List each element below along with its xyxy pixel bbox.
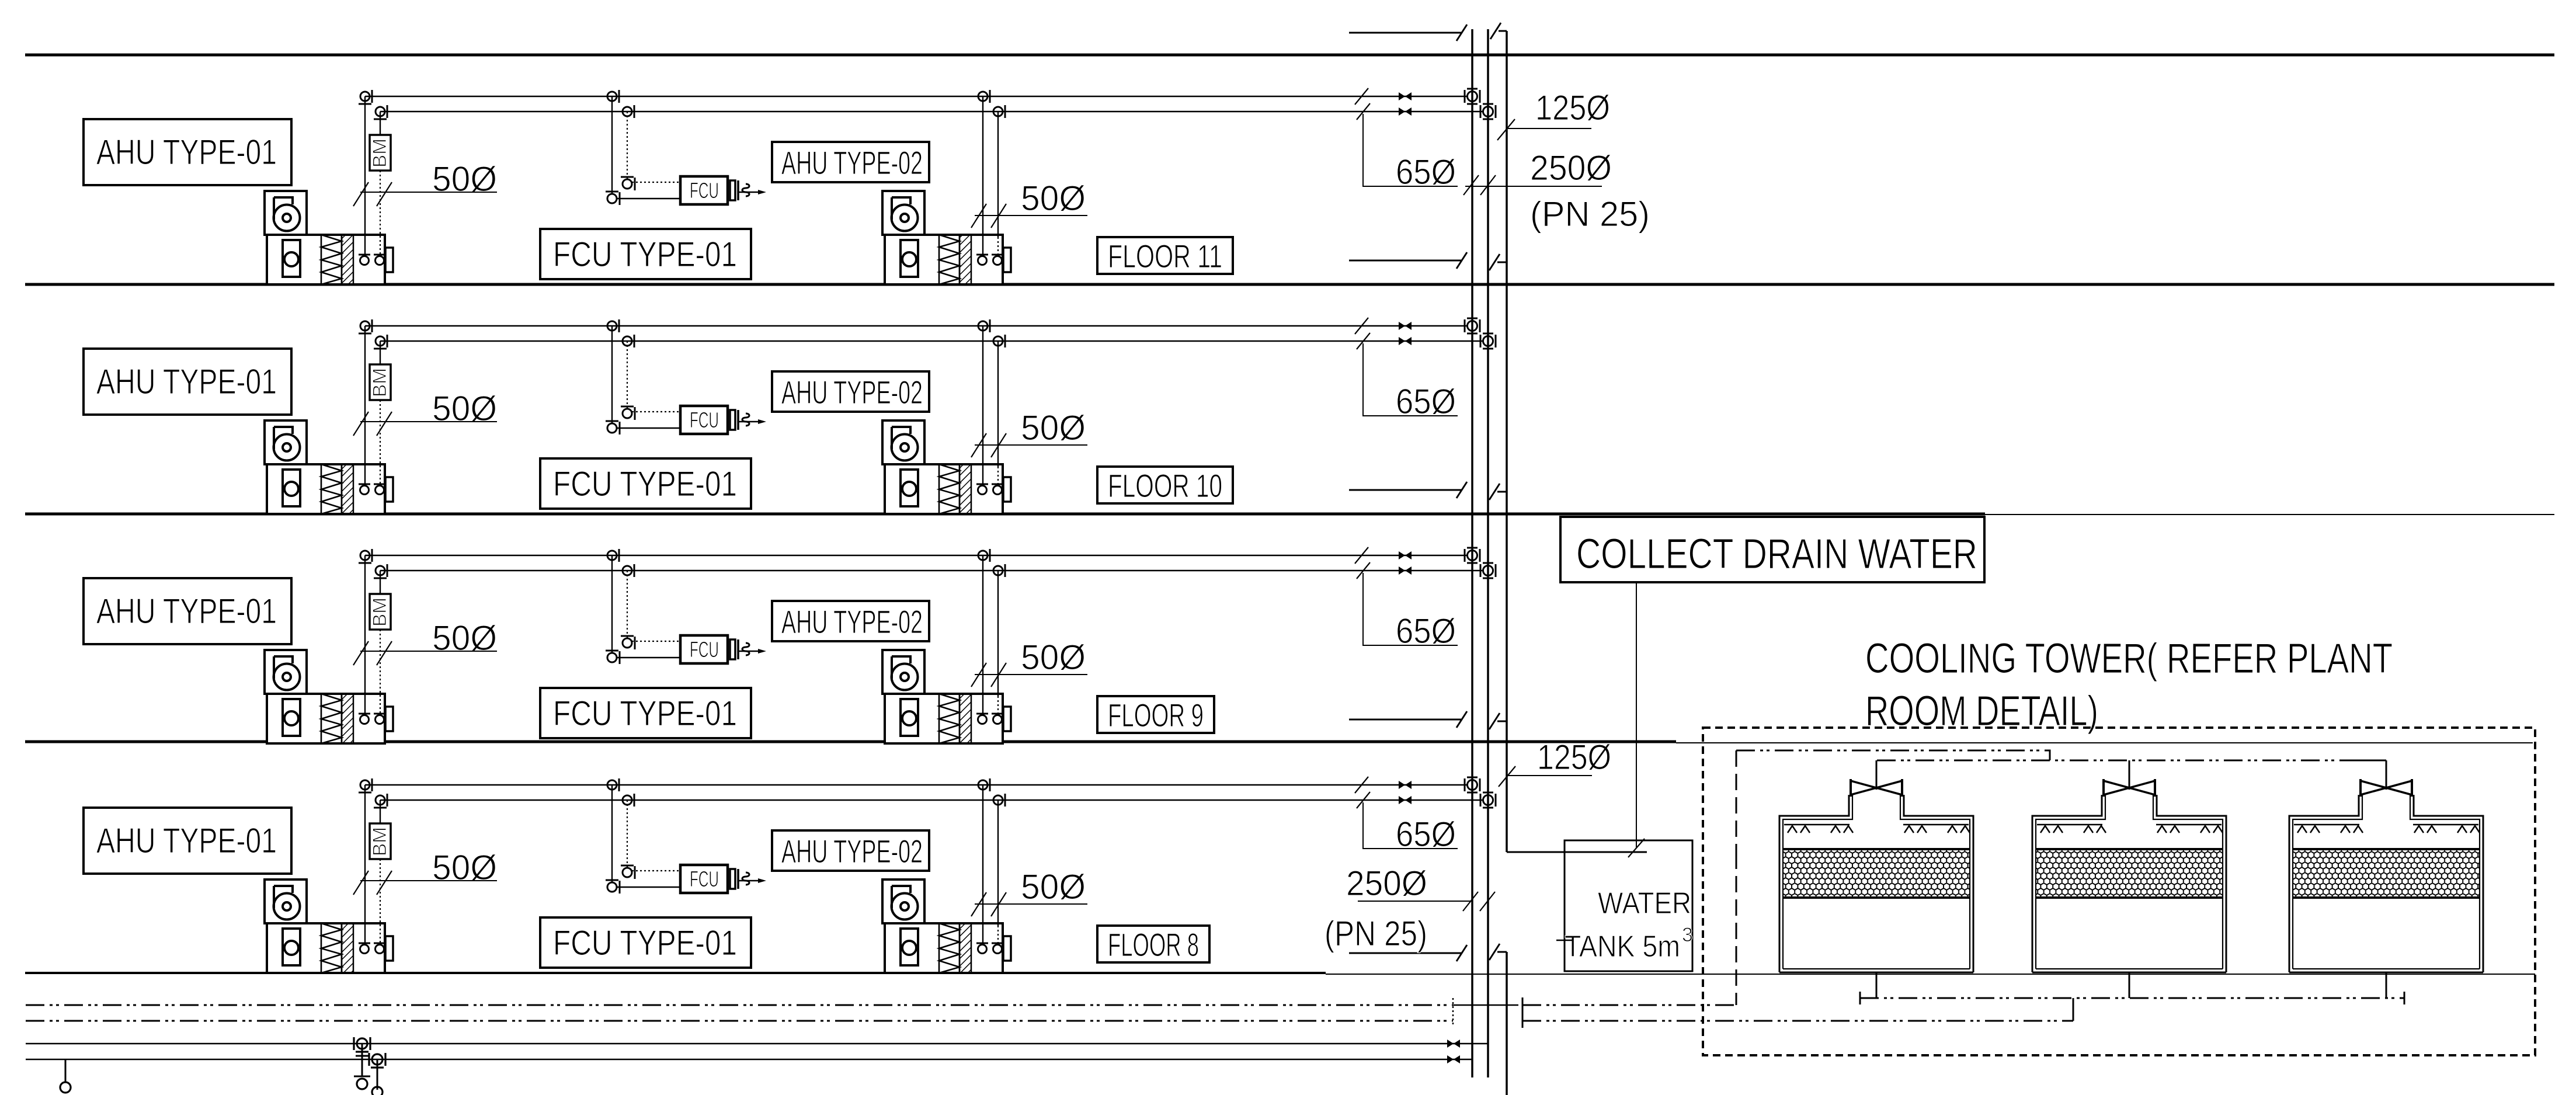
svg-text:AHU TYPE-02: AHU TYPE-02	[781, 374, 923, 411]
svg-text:FCU: FCU	[690, 179, 719, 203]
CWS pipe floor 10	[365, 325, 1467, 326]
AHU-01 return drop upper	[380, 341, 381, 364]
FCU air arrow	[738, 413, 766, 426]
AHU-01 unit: coil hatch	[342, 464, 353, 514]
svg-text:50Ø: 50Ø	[1021, 867, 1086, 906]
drain line 2 dash-dot right	[1522, 1020, 2073, 1022]
svg-text:FLOOR 9: FLOOR 9	[1108, 697, 1204, 734]
AHU-01 return drop lower dotted	[380, 630, 381, 715]
elbow union on CWR at AHU-01	[374, 564, 387, 578]
isolating valve on CWS	[1399, 92, 1412, 100]
AHU-02 return drop	[997, 112, 999, 237]
svg-text:250Ø: 250Ø	[1530, 148, 1612, 187]
AHU-02 unit: side tab	[1003, 477, 1011, 502]
elbow union on CWR at AHU-01	[374, 794, 387, 808]
svg-text:WATER: WATER	[1598, 887, 1691, 920]
riser tee connection CWS-R1	[1465, 89, 1480, 104]
AHU-02 unit: side tab	[1003, 936, 1011, 961]
floor slab line (floor 8 / plant room)	[25, 972, 1326, 974]
FCU supply elbow union	[606, 192, 620, 205]
svg-text:BM: BM	[369, 827, 390, 856]
FCU box	[680, 406, 728, 434]
pipe continuation break line y=446	[1349, 252, 1467, 269]
AHU-01 return drop lower dotted	[380, 171, 381, 256]
FCU connecting pipe supply	[617, 657, 680, 658]
svg-text:65Ø: 65Ø	[1396, 815, 1456, 854]
condenser header dash-dot B	[1877, 760, 2358, 762]
FCU branch return drop dotted	[627, 341, 628, 409]
50dia label at AHU-01	[353, 389, 497, 436]
drain riser R3 lower section	[1489, 944, 1507, 1095]
spray nozzles	[1948, 826, 1970, 833]
floor slab line (floor 10)	[25, 513, 1985, 516]
svg-text:AHU TYPE-02: AHU TYPE-02	[781, 833, 923, 870]
50dia label at AHU-02	[971, 867, 1087, 916]
AHU-01 unit: pump cell	[283, 699, 300, 736]
65dia label	[1355, 88, 1458, 192]
50dia label at AHU-01	[353, 848, 497, 895]
isolating valve on CWS	[1399, 551, 1412, 559]
tee union on CWR at FCU	[623, 335, 634, 347]
spray nozzles	[2414, 826, 2436, 833]
tee union on CWR at AHU-02	[993, 335, 1005, 347]
AHU TYPE-02 label box	[772, 830, 929, 871]
isolating valve on CWR	[1399, 796, 1412, 804]
condenser main supply bottom	[26, 1043, 1488, 1045]
condenser water riser R2 250dia	[1487, 29, 1489, 1077]
AHU-01 return drop upper	[380, 571, 381, 594]
svg-text:65Ø: 65Ø	[1396, 382, 1456, 421]
tower casing outer	[1779, 795, 1973, 972]
svg-text:125Ø: 125Ø	[1535, 88, 1610, 127]
FCU discharge plenum	[730, 639, 735, 659]
AHU-01 unit: main casing	[267, 464, 393, 514]
AHU TYPE-02 label box	[772, 601, 929, 641]
AHU-01 unit: filter zigzag	[321, 923, 342, 973]
svg-text:FLOOR 11: FLOOR 11	[1108, 238, 1222, 274]
tee union on CWS at AHU-02	[978, 549, 990, 562]
AHU-02 unit: main casing	[885, 923, 1011, 973]
riser elbow on bottom supply main	[354, 1037, 370, 1089]
AHU-02 return drop	[997, 571, 999, 696]
AHU-02 unit: side tab	[1003, 707, 1011, 731]
svg-text:BM: BM	[369, 138, 390, 168]
pipe continuation break line y=839	[1349, 482, 1467, 498]
riser tee connection CWR-R2	[1480, 792, 1496, 808]
AHU-02 return drop	[997, 341, 999, 467]
AHU-02 unit: pump cell	[901, 929, 918, 965]
AHU-01 unit: main casing	[267, 694, 393, 743]
svg-text:50Ø: 50Ø	[1021, 179, 1086, 218]
pipe continuation break line y=1632	[1349, 945, 1467, 961]
drain line 2 dash-dot left	[26, 1020, 1453, 1022]
AHU-01 unit: pump cell	[283, 929, 300, 965]
svg-text:FLOOR 8: FLOOR 8	[1108, 926, 1199, 963]
AHU-01 unit: fan volute	[274, 664, 300, 690]
elbow union on CWS at AHU-01	[359, 778, 372, 792]
svg-text:BM: BM	[369, 597, 390, 627]
FCU TYPE-01 label box	[540, 229, 751, 279]
tee union on CWS at AHU-02	[978, 319, 990, 332]
AHU-02 unit: filter zigzag	[939, 235, 960, 284]
50dia label at AHU-01	[353, 618, 497, 665]
AHU-02 supply drop	[982, 785, 983, 944]
AHU TYPE-02 label box	[772, 142, 929, 182]
svg-text:(PN 25): (PN 25)	[1530, 194, 1650, 234]
AHU TYPE-02 label box	[772, 371, 929, 412]
CWR pipe floor 11	[380, 111, 1482, 112]
svg-text:FCU TYPE-01: FCU TYPE-01	[553, 464, 737, 503]
AHU-02 unit: pump cell	[901, 699, 918, 736]
spray nozzles	[2157, 826, 2179, 833]
tee union on CWS at FCU	[607, 778, 619, 791]
tee union on CWR at AHU-02	[993, 105, 1005, 118]
tower drain	[2386, 972, 2387, 998]
riser tee connection CWS-R1	[1465, 548, 1480, 563]
svg-text:AHU TYPE-01: AHU TYPE-01	[96, 821, 277, 860]
FCU supply elbow union	[606, 651, 620, 664]
riser tee connection CWS-R1	[1465, 318, 1480, 333]
FCU supply elbow union	[606, 880, 620, 894]
AHU-02 unit: main casing	[885, 235, 1011, 284]
50dia label at AHU-02	[971, 638, 1087, 687]
AHU-01 unit: coil connection unions	[360, 945, 369, 954]
250dia label bottom	[1346, 864, 1495, 911]
tee union on CWS at FCU	[607, 319, 619, 332]
svg-text:50Ø: 50Ø	[1021, 638, 1086, 677]
tower drain	[1876, 972, 1878, 998]
drain riser break stub top	[1490, 23, 1507, 39]
fill pack honeycomb	[1783, 849, 1970, 898]
AHU-01 unit: coil hatch	[342, 694, 353, 743]
AHU-01 return drop lower dotted	[380, 400, 381, 485]
AHU-01 unit: coil connection unions	[360, 486, 369, 495]
AHU TYPE-01 label box	[84, 578, 291, 644]
fill pack honeycomb	[2036, 849, 2223, 898]
FCU branch supply drop	[611, 96, 613, 194]
water tank	[1556, 840, 1693, 971]
AHU-02 unit: fan section box	[882, 650, 924, 694]
AHU-02 unit: main casing	[885, 694, 1011, 743]
spray nozzles	[2341, 826, 2363, 833]
floor slab line (floor 11)	[25, 283, 2554, 286]
50dia label at AHU-02	[971, 408, 1087, 457]
leader from collect drain water to tank	[1628, 582, 1645, 857]
65dia label	[1355, 547, 1458, 651]
tee union on CWR at FCU	[623, 564, 634, 577]
AHU-02 return drop	[997, 800, 999, 926]
CWS pipe floor 8	[365, 784, 1467, 785]
FCU branch return drop dotted	[627, 800, 628, 868]
AHU-02 unit: coil hatch	[960, 235, 971, 284]
svg-text:FCU TYPE-01: FCU TYPE-01	[553, 235, 737, 274]
svg-text:COOLING TOWER( REFER PLANT: COOLING TOWER( REFER PLANT	[1865, 635, 2393, 682]
svg-text:AHU TYPE-02: AHU TYPE-02	[781, 144, 923, 181]
AHU-02 unit: coil hatch	[960, 923, 971, 973]
spray deck line	[2294, 824, 2359, 826]
tower 2 riser from header	[2129, 760, 2130, 765]
FLOOR 9 label box	[1097, 696, 1214, 734]
svg-text:AHU TYPE-01: AHU TYPE-01	[96, 133, 277, 172]
svg-text:TANK 5m: TANK 5m	[1565, 930, 1680, 964]
CWR pipe floor 8	[380, 799, 1482, 801]
condenser supply dash-dot A	[1736, 750, 2050, 760]
spray deck line	[1784, 824, 1850, 826]
tower inlet valve	[2361, 779, 2412, 797]
drain step-up to tower line	[2073, 998, 2074, 1021]
AHU-01 return drop upper	[380, 800, 381, 823]
riser tee connection CWR-R2	[1480, 104, 1496, 119]
riser tee connection CWR-R2	[1480, 563, 1496, 578]
FCU connecting pipe return dotted	[632, 641, 680, 642]
AHU-01 unit: fan volute	[274, 205, 300, 231]
spray nozzles	[2297, 826, 2320, 833]
AHU-02 unit: coil connection unions	[978, 256, 987, 265]
supply drop into dashed vertical	[1736, 750, 1737, 853]
FCU connecting pipe return dotted	[632, 182, 680, 183]
svg-text:BM: BM	[369, 368, 390, 397]
FCU branch supply drop	[611, 326, 613, 423]
BM balancing meter	[369, 594, 391, 630]
FCU air arrow	[738, 184, 766, 196]
tee union on CWS at FCU	[607, 90, 619, 103]
floor slab line (top, floor 12)	[25, 54, 2554, 57]
AHU-01 unit: fan volute	[274, 894, 300, 920]
elbow union on CWR at AHU-01	[374, 335, 387, 349]
tee union on CWR at AHU-02	[993, 564, 1005, 577]
250dia label top	[1463, 148, 1612, 195]
cooling tower unit at x=3646	[2032, 760, 2226, 998]
valve on bottom supply main	[1447, 1040, 1460, 1048]
tee union on CWS at AHU-02	[978, 778, 990, 791]
cooling tower unit at x=3213	[1779, 760, 1973, 998]
AHU-01 unit: main casing	[267, 923, 393, 973]
AHU-02 unit: coil hatch	[960, 694, 971, 743]
AHU-01 supply drop pipe	[364, 555, 366, 715]
FCU box	[680, 865, 728, 893]
FLOOR 10 label box	[1097, 467, 1233, 504]
tower casing inner	[1783, 795, 1970, 969]
FCU branch supply drop	[611, 785, 613, 882]
riser tee connection CWR-R2	[1480, 333, 1496, 349]
tower feed riser	[2386, 760, 2387, 790]
AHU-02 unit: side tab	[1003, 248, 1011, 272]
AHU-01 supply drop pipe	[364, 96, 366, 256]
COLLECT DRAIN WATER label box	[1560, 517, 1984, 582]
drain line 1 dash-dot right	[1522, 1004, 1736, 1006]
isolating valve on CWR	[1399, 337, 1412, 345]
AHU-01 unit: side tab	[385, 707, 393, 731]
FLOOR 11 label box	[1097, 237, 1233, 274]
FCU TYPE-01 label box	[540, 458, 751, 509]
AHU-02 unit: coil hatch	[960, 464, 971, 514]
pipe continuation break line y=1232	[1349, 711, 1467, 728]
BM balancing meter	[369, 135, 391, 171]
svg-text:65Ø: 65Ø	[1396, 611, 1456, 651]
drain pipe riser R3 to tank	[1507, 851, 1647, 853]
FLOOR 8 label box	[1097, 926, 1209, 963]
tower casing outer	[2289, 795, 2483, 972]
AHU-01 supply drop pipe	[364, 326, 366, 485]
CWS pipe floor 11	[365, 96, 1467, 97]
plant room ground line thin right part	[1326, 974, 2535, 975]
AHU-01 unit: pump cell	[283, 240, 300, 277]
FCU connecting pipe supply	[617, 198, 680, 199]
CWS pipe floor 9	[365, 555, 1467, 556]
125dia label bottom	[1499, 738, 1611, 787]
spray nozzles	[1788, 826, 1810, 833]
spray nozzles	[1904, 826, 1927, 833]
floor slab line (floor 9) thin right part	[1676, 742, 2533, 743]
AHU-02 unit: filter zigzag	[939, 694, 960, 743]
FCU connecting pipe return dotted	[632, 411, 680, 412]
drain junction dotted vertical	[1452, 998, 1454, 1027]
AHU-02 unit: filter zigzag	[939, 923, 960, 973]
50dia label at AHU-01	[353, 159, 497, 206]
AHU-02 unit: fan volute	[892, 894, 918, 920]
AHU-02 supply drop	[982, 96, 983, 256]
125dia label top	[1497, 88, 1610, 140]
FCU discharge plenum	[730, 869, 735, 889]
AHU-01 unit: fan section box	[265, 191, 307, 235]
tower feed riser	[2129, 760, 2130, 790]
drain line 1 solid through risers	[1453, 1004, 1518, 1006]
junction bar	[1522, 997, 1524, 1028]
riser tee connection CWS-R1	[1465, 777, 1480, 792]
spray nozzles	[2040, 826, 2063, 833]
svg-text:(PN 25): (PN 25)	[1324, 914, 1427, 953]
AHU-02 unit: fan volute	[892, 434, 918, 461]
tee union on CWS at AHU-02	[978, 90, 990, 103]
AHU TYPE-01 label box	[84, 119, 291, 185]
svg-text:FCU: FCU	[690, 638, 719, 662]
svg-text:FCU TYPE-01: FCU TYPE-01	[553, 694, 737, 733]
AHU-01 unit: fan section box	[265, 650, 307, 694]
AHU-02 unit: pump cell	[901, 240, 918, 277]
tower casing inner	[2036, 795, 2223, 969]
AHU-02 unit: fan section box	[882, 880, 924, 923]
svg-text:3: 3	[1682, 924, 1693, 946]
FCU TYPE-01 label box	[540, 688, 751, 738]
AHU-02 unit: coil connection unions	[978, 486, 987, 495]
AHU-01 unit: coil hatch	[342, 235, 353, 284]
BM balancing meter	[369, 823, 391, 859]
AHU-01 unit: pump cell	[283, 470, 300, 506]
AHU-01 return drop lower dotted	[380, 859, 381, 944]
tower casing outer	[2032, 795, 2226, 972]
tank drain dashed vertical	[1736, 853, 1737, 1005]
tee union on CWR at AHU-02	[993, 794, 1005, 807]
AHU-02 supply drop	[982, 326, 983, 485]
FCU connecting pipe return dotted	[632, 870, 680, 871]
FCU return elbow union	[621, 636, 635, 649]
spray nozzles	[2084, 826, 2106, 833]
CWR pipe floor 10	[380, 340, 1482, 342]
svg-text:50Ø: 50Ø	[1021, 408, 1086, 447]
AHU-01 unit: coil connection unions	[360, 715, 369, 724]
FCU TYPE-01 label box	[540, 917, 751, 968]
AHU-01 unit: filter zigzag	[321, 694, 342, 743]
svg-text:FCU: FCU	[690, 408, 719, 433]
fill pack honeycomb	[2293, 849, 2480, 898]
AHU-01 unit: filter zigzag	[321, 235, 342, 284]
AHU-02 unit: coil connection unions	[978, 715, 987, 724]
AHU-02 supply drop	[982, 555, 983, 715]
isolating valve on CWS	[1399, 322, 1412, 330]
AHU-01 unit: side tab	[385, 936, 393, 961]
isolating valve on CWS	[1399, 781, 1412, 789]
svg-text:COLLECT DRAIN WATER: COLLECT DRAIN WATER	[1576, 531, 1977, 578]
AHU-01 unit: main casing	[267, 235, 393, 284]
AHU-02 unit: fan volute	[892, 664, 918, 690]
AHU-02 unit: fan volute	[892, 205, 918, 231]
svg-text:FLOOR 10: FLOOR 10	[1108, 467, 1222, 504]
svg-text:FCU: FCU	[690, 867, 719, 892]
svg-text:65Ø: 65Ø	[1396, 152, 1456, 192]
tower feed riser	[1876, 760, 1878, 790]
cooling tower unit at x=4086	[2289, 760, 2483, 998]
svg-text:125Ø: 125Ø	[1537, 738, 1611, 777]
AHU-01 unit: filter zigzag	[321, 464, 342, 514]
elbow union on CWS at AHU-01	[359, 319, 372, 333]
FCU air arrow	[738, 872, 766, 885]
svg-text:ROOM DETAIL): ROOM DETAIL)	[1865, 688, 2098, 735]
AHU-01 unit: fan volute	[274, 434, 300, 461]
AHU-01 unit: side tab	[385, 477, 393, 502]
spray nozzles	[1831, 826, 1853, 833]
AHU-02 unit: filter zigzag	[939, 464, 960, 514]
isolating valve on CWR	[1399, 107, 1412, 116]
valve on bottom return main	[1447, 1055, 1460, 1063]
drain riser break stub y=839	[1489, 484, 1507, 500]
isolating valve on CWR	[1399, 566, 1412, 575]
AHU TYPE-01 label box	[84, 808, 291, 874]
floor slab line (floor 10) thin right part	[1985, 514, 2554, 515]
AHU-02 unit: fan section box	[882, 191, 924, 235]
tee union on CWS at FCU	[607, 549, 619, 562]
svg-text:AHU TYPE-02: AHU TYPE-02	[781, 603, 923, 640]
FCU supply elbow union	[606, 421, 620, 434]
svg-text:AHU TYPE-01: AHU TYPE-01	[96, 362, 277, 401]
FCU branch return drop dotted	[627, 112, 628, 179]
cooling tower plant dashed enclosure	[1703, 728, 2535, 1055]
FCU return elbow union	[621, 406, 635, 420]
AHU-02 unit: fan section box	[882, 420, 924, 464]
65dia label	[1355, 777, 1458, 854]
tower inlet valve	[1851, 779, 1902, 797]
tower casing inner	[2293, 795, 2480, 969]
FCU box	[680, 635, 728, 663]
spray nozzles	[2200, 826, 2223, 833]
FCU box	[680, 176, 728, 204]
FCU branch supply drop	[611, 555, 613, 653]
AHU-02 unit: pump cell	[901, 470, 918, 506]
FCU connecting pipe supply	[617, 887, 680, 888]
tower common drain dash-dot	[1860, 992, 2404, 1004]
AHU-01 unit: fan section box	[265, 420, 307, 464]
AHU-02 unit: main casing	[885, 464, 1011, 514]
stub drop far left	[60, 1059, 71, 1093]
FCU return elbow union	[621, 177, 635, 190]
AHU TYPE-01 label box	[84, 349, 291, 415]
AHU-01 unit: side tab	[385, 248, 393, 272]
spray deck line	[2037, 824, 2102, 826]
condenser water riser R1 250dia	[1471, 29, 1473, 1077]
AHU-01 unit: coil connection unions	[360, 256, 369, 265]
CWR pipe floor 9	[380, 570, 1482, 571]
BM balancing meter	[369, 364, 391, 400]
tower 3 header corner	[2358, 760, 2386, 762]
